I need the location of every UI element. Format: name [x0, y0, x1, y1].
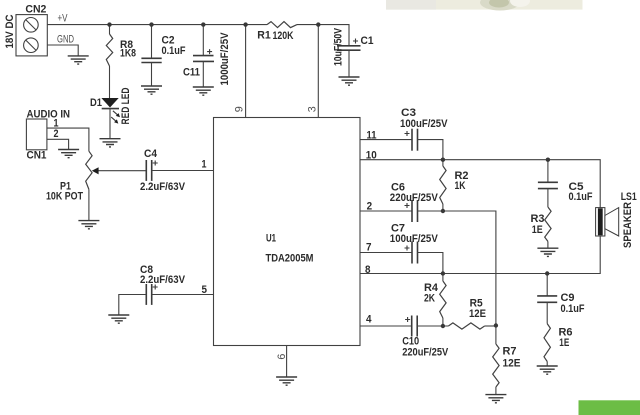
ground (R3) — [537, 248, 558, 256]
wire C4 to pin 1 — [152, 170, 214, 172]
svg-text:0.1uF: 0.1uF — [561, 303, 585, 315]
capacitor C4 — [140, 148, 186, 193]
ground (P1) — [78, 221, 99, 229]
green footer block — [579, 400, 640, 415]
svg-text:1E: 1E — [559, 337, 569, 349]
connector CN1 — [26, 108, 70, 161]
svg-text:U1: U1 — [266, 233, 276, 245]
resistor R4 — [424, 274, 446, 327]
svg-text:1K8: 1K8 — [120, 48, 136, 60]
junction +V/C2 — [149, 22, 153, 26]
junction +V/R8 — [107, 22, 111, 26]
svg-text:C1: C1 — [361, 35, 374, 47]
svg-text:2.2uF/63V: 2.2uF/63V — [140, 274, 186, 286]
capacitor C9 — [537, 274, 585, 316]
capacitor C8 — [140, 264, 186, 305]
potentiometer P1 — [46, 151, 99, 202]
svg-text:1000uF/25V: 1000uF/25V — [219, 32, 231, 86]
wire C7 to pin 8 line — [418, 253, 443, 274]
capacitor C7 — [390, 223, 439, 264]
junction R5/R7/feedback — [494, 323, 498, 327]
wire pin 4 — [360, 325, 412, 327]
svg-text:12E: 12E — [469, 308, 486, 320]
svg-text:220uF/25V: 220uF/25V — [402, 346, 449, 358]
ground (C8) — [108, 315, 129, 323]
svg-text:120K: 120K — [273, 30, 294, 42]
ground (D1) — [100, 139, 121, 147]
svg-text:18V DC: 18V DC — [4, 14, 16, 48]
ground (R6) — [537, 366, 558, 374]
LED D1 — [90, 87, 132, 138]
junction C5/pin10 — [546, 158, 550, 162]
ground (C1) — [339, 77, 360, 85]
op-amp IC U1 TDA2005M — [214, 118, 361, 346]
wire pot wiper to C4 — [99, 170, 147, 172]
svg-text:7: 7 — [366, 241, 372, 253]
svg-text:RED LED: RED LED — [120, 87, 132, 124]
wire pin 6 — [286, 346, 288, 378]
svg-text:CN1: CN1 — [27, 150, 47, 162]
wire rail R1 to C1 corner — [297, 25, 349, 46]
svg-text:1: 1 — [202, 158, 207, 170]
connector CN2 — [4, 4, 47, 56]
svg-text:1E: 1E — [532, 224, 543, 236]
wire pin 11 — [360, 139, 412, 141]
svg-text:GND: GND — [57, 34, 74, 46]
ground (pin 6) — [276, 377, 297, 385]
speaker LS1 — [596, 191, 637, 248]
svg-text:+V: +V — [58, 13, 68, 25]
svg-text:6: 6 — [276, 354, 288, 360]
ground (C2) — [141, 86, 162, 94]
wire pin 2 feedback vertical — [418, 211, 496, 326]
svg-text:2K: 2K — [424, 292, 435, 304]
svg-text:2.2uF/63V: 2.2uF/63V — [140, 181, 186, 193]
svg-text:100uF/25V: 100uF/25V — [400, 118, 448, 130]
ground (C11) — [193, 87, 214, 95]
ground (R7) — [485, 395, 506, 403]
wire pin 8 to speaker — [360, 236, 600, 274]
svg-text:100uF/25V: 100uF/25V — [390, 233, 439, 245]
junction C7/R4/pin8 — [441, 271, 445, 275]
svg-text:AUDIO IN: AUDIO IN — [27, 108, 71, 120]
svg-text:2: 2 — [54, 128, 59, 140]
wire pin 9 — [245, 25, 247, 118]
svg-text:10K POT: 10K POT — [46, 190, 83, 202]
resistor R8 — [106, 25, 136, 98]
resistor R5 — [448, 298, 486, 329]
svg-text:0.1uF: 0.1uF — [569, 191, 593, 203]
capacitor C2 — [141, 25, 185, 86]
wire +V rail — [47, 24, 267, 26]
resistor R6 — [544, 302, 573, 366]
junction +V/pin9 — [243, 22, 247, 26]
ground (CN1 pin 2) — [58, 150, 79, 158]
svg-text:CN2: CN2 — [25, 4, 46, 16]
svg-text:9: 9 — [234, 106, 246, 112]
wire R5 to node — [485, 325, 496, 327]
resistor R7 — [493, 326, 521, 395]
svg-text:10: 10 — [366, 149, 377, 161]
junction R2/C6/pin2 — [441, 209, 445, 213]
resistor R3 — [531, 189, 552, 249]
wire C8 left to ground — [119, 295, 147, 316]
svg-text:R7: R7 — [503, 346, 517, 358]
junction C3/R2/pin10 — [441, 158, 445, 162]
svg-text:10uF/50V: 10uF/50V — [333, 27, 345, 66]
ground (CN2 GND) — [68, 56, 89, 64]
capacitor C6 — [390, 181, 439, 222]
svg-text:LS1: LS1 — [621, 191, 637, 203]
svg-text:R1: R1 — [257, 30, 271, 42]
svg-text:8: 8 — [365, 264, 371, 276]
capacitor C5 — [538, 160, 593, 203]
svg-text:4: 4 — [366, 314, 372, 326]
photo fragment strip top-right — [386, 0, 583, 11]
svg-text:3: 3 — [306, 106, 318, 112]
capacitor C11 — [183, 25, 231, 87]
wire CN1 pin 1 to pot — [47, 128, 89, 151]
capacitor C3 — [400, 107, 448, 151]
wire pin 7 — [360, 252, 412, 254]
svg-text:0.1uF: 0.1uF — [162, 45, 186, 57]
svg-text:12E: 12E — [503, 357, 521, 369]
wire C10 to R5 — [417, 325, 448, 327]
svg-text:220uF/25V: 220uF/25V — [390, 192, 439, 204]
wire GND from CN2 — [47, 45, 78, 56]
wire pin 2 — [360, 210, 412, 212]
resistor R1 — [257, 22, 297, 42]
junction +V/C11 — [201, 22, 205, 26]
wire CN1 pin 2 to ground — [47, 139, 69, 149]
resistor R2 — [440, 160, 469, 211]
wire C8 to pin 5 — [152, 294, 214, 296]
svg-text:5: 5 — [202, 284, 208, 296]
wire C3 to pin 10 line — [418, 140, 443, 160]
svg-text:2: 2 — [367, 201, 373, 213]
capacitor C1 — [333, 27, 374, 77]
svg-text:SPEAKER: SPEAKER — [622, 202, 634, 248]
junction R1/pin3/C1 — [316, 22, 320, 26]
svg-text:C4: C4 — [144, 148, 158, 160]
junction C10/R4/R5/pin4 — [441, 324, 445, 328]
capacitor C10 — [402, 316, 449, 359]
svg-text:1K: 1K — [455, 180, 466, 192]
svg-text:C11: C11 — [183, 67, 200, 79]
svg-text:TDA2005M: TDA2005M — [266, 253, 314, 265]
wire pot bottom — [88, 189, 90, 220]
svg-text:11: 11 — [367, 129, 377, 141]
wire pin 3 — [317, 25, 319, 118]
wire pin 10 to speaker — [360, 160, 600, 208]
svg-text:D1: D1 — [90, 97, 102, 109]
junction C9/pin8 — [545, 271, 549, 275]
